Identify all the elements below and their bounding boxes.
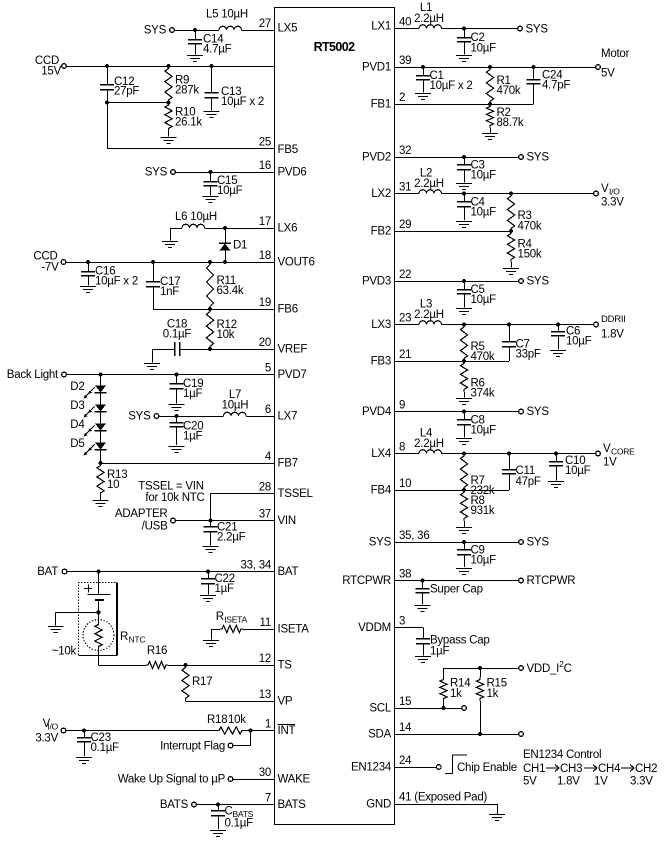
label C8 [471,415,497,437]
pin 14 number [399,722,412,734]
label C14 value [203,34,232,56]
node CCD 15V terminal [35,55,67,78]
svg-text:28: 28 [259,482,271,494]
capacitor C15 [204,172,218,196]
svg-text:DDRII: DDRII [601,314,626,325]
resistor R16 [146,661,168,668]
svg-text:21: 21 [399,349,411,361]
junction R12 top [208,307,212,311]
wire SCL [395,708,462,710]
node Interrupt Flag terminal [160,741,233,753]
LED D3 [84,393,107,418]
ground C21 [203,547,219,553]
ground GND pin [489,815,505,821]
chip enable step icon [445,755,467,774]
svg-text:CH3: CH3 [560,763,582,775]
pin VP name [278,696,293,708]
thermistor RNTC circle [83,620,114,651]
junction R5/R6 [462,359,466,363]
battery pack dashed box [79,583,118,656]
ground C9 [456,569,472,575]
wire L2 to VIO [442,193,594,195]
label L5 10µH [206,9,248,21]
svg-text:14: 14 [399,722,412,734]
junction R9/R10 [166,100,170,104]
svg-text:10µF x 2: 10µF x 2 [430,80,473,92]
capacitor CBATS [211,805,225,830]
capacitor C23 [77,731,91,757]
label R17 [192,676,212,688]
pin 20 number [259,337,271,349]
pin SDA name [368,729,391,741]
junction R11 top [208,260,212,264]
svg-text:33, 34: 33, 34 [241,560,272,572]
svg-text:10µF x 2: 10µF x 2 [95,276,138,288]
svg-text:LX1: LX1 [371,21,391,33]
wire RTCPWR [395,580,519,582]
junction C21 [208,518,212,522]
svg-text:R17: R17 [192,676,212,688]
node SYS terminal (pins 35 36) [519,537,550,549]
junction C5 [462,279,466,283]
resistor R10 [165,103,172,132]
resistor R3 [507,194,514,232]
label C13 [221,86,264,108]
label RISETA [216,611,248,625]
svg-text:10k: 10k [217,329,235,341]
pin PVD6 name [278,167,307,179]
LED D5 [84,431,107,456]
junction R15 bottom [478,732,482,736]
capacitor C2 [457,29,471,55]
svg-text:RTCPWR: RTCPWR [342,575,391,587]
resistor R6 [460,361,467,392]
junction R5 top [462,322,466,326]
pin FB2 name [371,226,391,238]
ground C6 [550,351,566,357]
pin PVD1 name [362,62,391,74]
svg-text:SYS: SYS [527,406,550,418]
pin PVD7 name [278,369,307,381]
svg-text:VDDM: VDDM [358,622,391,634]
wire C18 left to ground [152,349,175,363]
svg-text:CORE: CORE [611,447,635,457]
svg-text:LX6: LX6 [278,223,298,235]
node Wake terminal [118,774,233,786]
pin VDDM name [358,622,391,634]
junction on LX5 wire at C14 [193,28,197,32]
capacitor C12 [100,66,114,103]
junction C20 [174,414,178,418]
pin 8 number [399,442,405,454]
label R15 [487,678,507,701]
label C20 [183,421,203,443]
ground RISETA [203,641,219,647]
svg-text:22: 22 [399,269,411,281]
junction LED chain top [98,372,102,376]
pin FB1 name [371,99,391,111]
battery cell symbol [88,572,111,613]
svg-text:PVD7: PVD7 [278,369,307,381]
pin 41 number [399,792,487,804]
pin 27 number [259,18,271,30]
svg-text:RT5002: RT5002 [314,40,356,54]
svg-text:4: 4 [265,451,272,463]
label Bypass Cap [430,635,490,658]
svg-text:10µF: 10µF [471,425,497,437]
svg-text:10k: 10k [228,714,246,726]
svg-text:10µF: 10µF [566,336,592,348]
svg-text:88.7k: 88.7k [497,117,524,129]
svg-text:EN1234: EN1234 [351,762,392,774]
junction C10 top [554,451,558,455]
ground R13 [93,496,109,507]
label Chip Enable [457,762,517,774]
pin PVD3 name [362,276,391,288]
svg-text:39: 39 [399,55,411,67]
wire BAT to pin [67,571,274,573]
svg-text:2: 2 [399,92,405,104]
wire interrupt flag [233,731,250,746]
ground C16 [80,287,96,293]
capacitor C8 [457,412,471,438]
label C19 [183,378,203,400]
svg-text:2.2µH: 2.2µH [414,13,444,25]
pin LX3 name [371,319,391,331]
wire CCD-7V to pin VOUT6 [66,262,274,264]
svg-text:2.2µH: 2.2µH [414,438,444,450]
label C23 [91,732,120,754]
svg-text:CH4: CH4 [598,763,621,775]
svg-text:D5: D5 [70,438,84,450]
svg-text:10µF: 10µF [471,555,497,567]
svg-text:SYS: SYS [145,167,168,179]
svg-text:VP: VP [278,696,293,708]
node Back Light terminal [7,369,67,381]
pin SCL name [369,703,391,715]
label C16 [95,266,138,288]
junction C22 [206,569,210,573]
svg-text:SYS: SYS [527,537,550,549]
svg-text:10µH: 10µH [222,400,249,412]
label C12 [114,76,139,98]
svg-text:LX5: LX5 [278,23,298,35]
pin LX1 name [371,21,391,33]
label L3 [414,299,444,322]
pin TS name [278,660,293,672]
wire VDDM [395,628,424,639]
ground C18 [144,364,160,370]
pin LX2 name [371,188,391,200]
ground bypass cap [415,657,431,663]
ground C23 [76,758,92,764]
pin BAT name [278,566,299,578]
label L6 10µH [175,211,217,223]
junction D1 top [223,226,227,230]
junction R14 bottom [441,706,445,710]
ground C15 [203,197,219,203]
junction battery top [96,569,100,573]
svg-text:287k: 287k [175,85,199,97]
ground C10 [548,482,564,488]
wire BackLight to pin PVD7 [67,374,275,376]
resistor R15 [476,668,483,734]
junction battery minus [96,610,100,614]
label R13 [107,469,127,491]
svg-text:SYS: SYS [527,276,550,288]
label D5 [70,438,84,450]
svg-text:0.1µF: 0.1µF [225,818,254,830]
capacitor C3 [457,157,471,183]
svg-text:31: 31 [399,182,411,194]
ground C20 [169,447,185,453]
label C5 [471,284,497,306]
pin 32 number [399,145,411,157]
svg-text:3.3V: 3.3V [35,733,58,745]
pin 7 number [265,793,271,805]
node SDA terminal [519,732,524,737]
node VDD_I2C terminal [519,659,572,675]
svg-text:FB5: FB5 [278,144,298,156]
wire D5 to FB7 [100,450,102,464]
junction R7/R8 [462,488,466,492]
svg-text:27: 27 [259,18,271,30]
label CBATS [225,806,254,830]
ground C3 [456,184,472,190]
pin FB5 name [278,144,298,156]
IC U1 name label RT5002 [314,40,356,54]
svg-text:15V: 15V [41,66,61,78]
pin 12 number [259,653,271,665]
inductor L6 [182,224,205,228]
junction R9 top [166,64,170,68]
label C1 [430,70,473,92]
capacitor C24 [527,67,541,104]
svg-text:1nF: 1nF [160,286,179,298]
junction R13 top [98,461,102,465]
junction super cap [420,578,424,582]
svg-text:1V: 1V [594,776,608,788]
svg-text:63.4k: 63.4k [217,285,244,297]
label R7 [471,475,495,497]
wire C18 to pin VREF [179,349,275,351]
resistor R17 [182,665,189,701]
node BATS terminal [160,799,197,811]
wire L7 to pin LX7 [246,416,275,418]
label C4 [471,197,497,219]
LED D4 [84,412,107,437]
label EN1234 Control [523,749,601,761]
node BAT terminal [37,566,67,578]
capacitor C21 [204,521,218,546]
wire SYS pins to SYS [395,542,519,544]
pin 29 number [399,219,411,231]
pin 38 number [399,569,411,581]
label C24 [542,70,570,92]
ground CBATS [210,831,226,837]
svg-text:BATS: BATS [278,799,307,811]
wire SYS to pin PVD6 [176,172,275,174]
svg-text:2.2µF: 2.2µF [217,532,246,544]
node CCD -7V terminal [33,251,66,274]
pin LX6 name [278,223,298,235]
svg-text:23: 23 [399,313,411,325]
svg-text:3: 3 [399,616,405,628]
svg-text:30: 30 [259,767,271,779]
wire pin LX1 to L1 [395,28,419,30]
ground L6 [162,242,178,248]
svg-text:Motor: Motor [601,48,630,60]
svg-text:V: V [601,183,609,195]
wire PVD4 to SYS [395,411,519,413]
label C18 [163,319,192,341]
svg-text:SYS: SYS [369,537,392,549]
node SYS terminal (PVD4) [519,406,550,418]
svg-text:29: 29 [399,219,411,231]
wire RISETA to pin [243,629,275,631]
svg-text:10µF: 10µF [471,207,497,219]
label R3 [518,210,542,233]
wire FB4 [395,490,509,492]
junction C12 bottom / FB5 link [105,100,109,104]
svg-text:LX4: LX4 [371,448,392,460]
svg-text:SDA: SDA [368,729,391,741]
node SYS terminal (LX7 net) [128,411,159,423]
node ADAPTER/USB terminal [115,508,175,533]
inductor L1 [419,25,442,29]
svg-text:BAT: BAT [278,566,299,578]
ground C1 [415,94,431,100]
svg-text:Chip Enable: Chip Enable [457,762,517,774]
capacitor C4 [457,194,471,221]
inductor L5 [219,26,242,30]
wire R18 to pin INT [244,730,275,732]
wire BATS to pin [197,804,275,806]
capacitor C13 [205,66,219,111]
svg-text:R: R [120,631,128,643]
svg-text:10µF: 10µF [471,294,497,306]
svg-text:1V: 1V [603,457,617,469]
svg-text:931k: 931k [471,505,495,517]
label TSSEL note [138,481,204,505]
svg-text:5V: 5V [601,68,615,80]
svg-text:10µF: 10µF [217,185,243,197]
svg-text:8: 8 [399,442,405,454]
svg-text:FB6: FB6 [278,304,298,316]
pin 11 number [260,617,271,629]
junction C17 top [151,260,155,264]
wire SYS to L7 [159,416,223,418]
wire C12-R10 link [107,102,169,104]
svg-text:11: 11 [260,617,271,629]
svg-text:RTCPWR: RTCPWR [527,575,576,587]
pin 35,36 number [399,530,429,542]
ground C22 [200,596,216,602]
capacitor C7 [502,325,516,362]
pin SYS name [369,537,392,549]
pin FB7 name [278,458,298,470]
capacitor C10 [549,454,563,481]
pin TSSEL name [278,488,314,500]
label R4 [518,239,542,261]
svg-text:CH2: CH2 [635,763,657,775]
wire EN1234 [395,767,436,769]
inductor L3 [419,321,442,325]
label D4 [70,419,85,431]
pin GND name [366,799,391,811]
pin EN1234 name [351,762,392,774]
svg-text:Back Light: Back Light [7,369,59,381]
svg-text:L6 10µH: L6 10µH [175,211,217,223]
wire L6 to pin LX6 [205,228,275,230]
ground C5 [456,309,472,315]
wire FB7 to pin [101,463,275,465]
svg-text:1µF: 1µF [215,583,235,595]
svg-text:26.1k: 26.1k [175,117,202,129]
label C9 [471,545,497,567]
svg-text:~10k: ~10k [52,646,77,658]
svg-text:for 10k NTC: for 10k NTC [145,492,204,504]
svg-text:LX2: LX2 [371,188,391,200]
svg-text:10µF x 2: 10µF x 2 [221,96,264,108]
label C6 [566,326,592,348]
svg-text:5V: 5V [523,776,537,788]
label R2 [497,107,524,129]
node VCORE terminal [596,443,635,469]
pin 21 number [399,349,411,361]
svg-text:LX7: LX7 [278,411,298,423]
junction C4 [462,191,466,195]
svg-text:470k: 470k [497,85,521,97]
label L1 [414,2,444,25]
junction C8 [462,409,466,413]
pin 2 number [399,92,405,104]
pin LX7 name [278,411,298,423]
svg-text:10µF: 10µF [565,465,591,477]
svg-text:EN1234 Control: EN1234 Control [523,749,601,761]
svg-text:C: C [225,806,233,818]
svg-text:I/O: I/O [47,722,58,732]
junction CBATS [216,802,220,806]
svg-text:37: 37 [259,509,271,521]
capacitor C16 [81,262,95,286]
pin 13 number [259,689,271,701]
wire CCD to pin PVD5 [67,66,275,68]
pin VREF name [278,344,308,356]
wire VDD_I2C rail [444,668,519,670]
label C15 [217,175,243,197]
capacitor C9 [457,542,471,567]
pin 30 number [259,767,271,779]
svg-text:VOUT6: VOUT6 [278,257,315,269]
svg-text:ADAPTER: ADAPTER [115,508,168,520]
pin PVD2 name [362,152,391,164]
wire L4 to VCORE [442,453,596,455]
node SCL terminal [462,706,467,711]
resistor R4 [507,231,514,262]
capacitor C22 [201,572,215,595]
wire TSSEL [211,494,275,521]
resistor R2 [486,104,493,128]
resistor R7 [460,454,467,491]
svg-text:17: 17 [259,216,271,228]
pin 23 number [399,313,411,325]
svg-text:33pF: 33pF [516,349,541,361]
label D2 [70,381,84,393]
svg-text:/USB: /USB [142,521,168,533]
label R12 [217,319,237,341]
ground C4 [456,222,472,228]
